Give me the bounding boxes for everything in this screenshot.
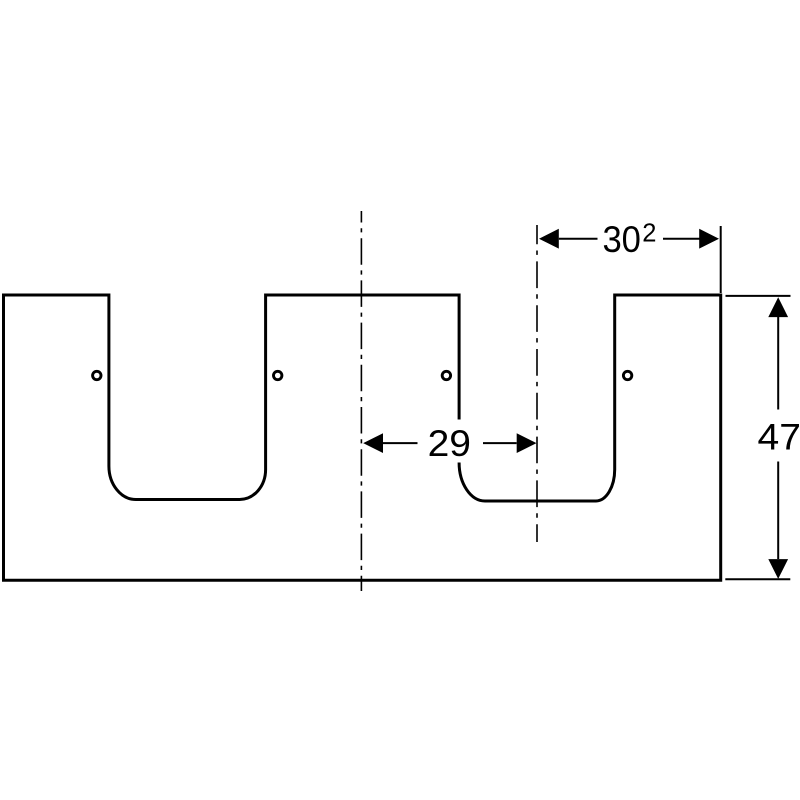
arrow 30squared left xyxy=(539,229,559,249)
dimension 29 line right segment xyxy=(483,442,517,444)
arrow 47 top xyxy=(768,297,788,317)
arrow 29 right xyxy=(517,433,537,453)
text halo mask over cutout B wall xyxy=(419,420,482,463)
hole 4 xyxy=(623,371,631,379)
extension line top for 47 xyxy=(726,295,791,297)
svg-text:30: 30 xyxy=(602,218,641,260)
dimension 47 line top segment xyxy=(777,317,779,410)
centerline cutout B axis xyxy=(536,225,538,542)
svg-text:29: 29 xyxy=(428,422,471,464)
svg-text:47: 47 xyxy=(758,416,800,458)
extension line bottom for 47 xyxy=(725,578,790,580)
extension line right edge for 30squared xyxy=(720,226,722,293)
dimension 30squared line right segment xyxy=(663,238,700,240)
hole 3 xyxy=(442,371,450,379)
svg-text:2: 2 xyxy=(642,219,656,247)
arrow 30squared right xyxy=(699,229,719,249)
panel outline with two U-shaped cutouts xyxy=(4,295,721,580)
hole 2 xyxy=(274,371,282,379)
dimension 29 line left segment xyxy=(383,442,418,444)
arrow 47 bottom xyxy=(768,559,788,579)
arrow 29 left xyxy=(363,433,383,453)
hole 1 xyxy=(93,371,101,379)
dimension 47 line bottom segment xyxy=(777,462,779,560)
dimension 30squared line left segment xyxy=(559,238,598,240)
centerline panel axis xyxy=(360,211,362,591)
